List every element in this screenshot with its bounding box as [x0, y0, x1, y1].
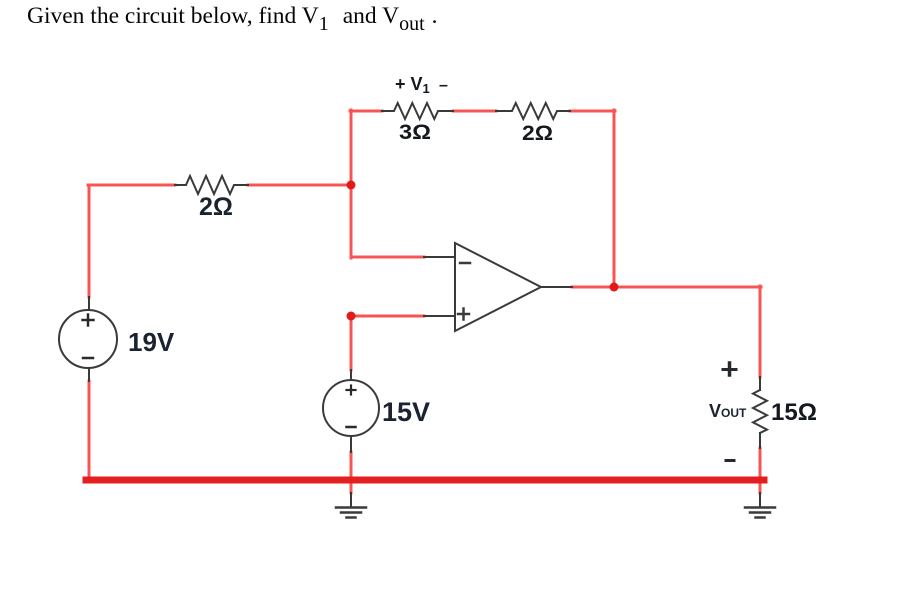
wire: left horizontal from corner to resistor R2 (2ohm left) — [88, 184, 175, 187]
op-amp U1 input lead (inverting) — [424, 256, 455, 258]
svg-text:VOUT: VOUT — [709, 401, 747, 421]
wire: right vertical of top branch down to output node B — [613, 110, 616, 288]
node A junction dot (feedback tap) — [347, 181, 356, 190]
label Vout plus polarity — [723, 363, 736, 375]
voltage source V19 plus marker — [83, 315, 94, 326]
resistor R3 3ohm (top left) — [382, 103, 453, 119]
op-amp U1 triangle body — [455, 243, 541, 331]
voltage source V19 circle body — [59, 310, 117, 368]
resistor R5 15ohm bottom lead — [759, 433, 761, 448]
svg-text:2Ω: 2Ω — [199, 193, 233, 221]
voltage source V15 circle body — [323, 380, 379, 436]
op-amp U1 plus input marker — [458, 309, 469, 320]
wire: center vertical from top branch corner through node A down to inverting input wire — [350, 110, 353, 258]
ground G1 stub below 15V source — [350, 493, 352, 507]
wire: right branch vertical from 15ohm resistor through bottom bus — [759, 448, 762, 493]
title text — [27, 3, 438, 30]
voltage source V19 top lead — [88, 297, 90, 311]
svg-text:+ V1–: + V1– — [395, 74, 448, 96]
wire: left vertical below 19V source down to bottom bus — [88, 381, 91, 482]
op-amp U1 output lead — [541, 286, 572, 288]
resistor R1 2ohm (left) — [175, 176, 248, 194]
voltage source V15 plus marker — [347, 386, 356, 395]
resistor R4 2ohm (top right) — [496, 103, 570, 119]
wire: vertical from node C down to 15V source — [350, 315, 353, 370]
wire: top branch segment between 3ohm and 2ohm resistors — [453, 110, 496, 113]
node C junction dot (non-inverting input) — [347, 312, 356, 321]
ground G2 symbol bars — [745, 508, 775, 518]
wire: output horizontal wire from op-amp lead to right branch corner — [572, 286, 761, 289]
svg-text:2Ω: 2Ω — [522, 122, 553, 145]
node B junction dot (output node) — [610, 283, 619, 292]
voltage source V19 minus marker — [83, 357, 93, 360]
wire: top branch right segment to top-right corner — [570, 110, 615, 113]
ground G1 symbol bars — [336, 508, 366, 518]
svg-text:15Ω: 15Ω — [771, 399, 817, 426]
svg-text:3Ω: 3Ω — [399, 121, 431, 144]
wire: from R2 (2ohm left) to center junction node A — [248, 184, 352, 187]
op-amp U1 input lead (non-inverting) — [424, 315, 455, 317]
voltage source V15 minus marker — [347, 426, 356, 429]
ground G2 stub below bus at right branch — [759, 493, 761, 507]
wire: bottom ground bus (thick) — [86, 477, 764, 484]
wire: top branch left red segment before 3ohm resistor — [350, 110, 382, 113]
op-amp U1 minus input marker — [460, 262, 470, 265]
svg-text:19V: 19V — [128, 327, 175, 357]
svg-text:15V: 15V — [382, 397, 430, 427]
voltage source V15 top lead — [350, 370, 352, 381]
wire: left vertical from top-left corner down to 19V source — [88, 185, 91, 297]
wire: vertical below 15V source through bottom bus — [350, 452, 353, 493]
voltage source V15 bottom lead — [350, 435, 352, 452]
label Vout minus polarity — [726, 459, 734, 462]
voltage source V19 bottom lead — [88, 367, 90, 381]
wire: inverting input horizontal wire — [351, 256, 424, 259]
wire: right branch vertical down to 15ohm resistor — [759, 286, 762, 377]
wire: non-inverting input horizontal wire from node C — [351, 315, 424, 318]
resistor R5 15ohm (vertical, right) top lead — [759, 377, 761, 390]
resistor R5 15ohm zigzag body — [753, 390, 767, 433]
